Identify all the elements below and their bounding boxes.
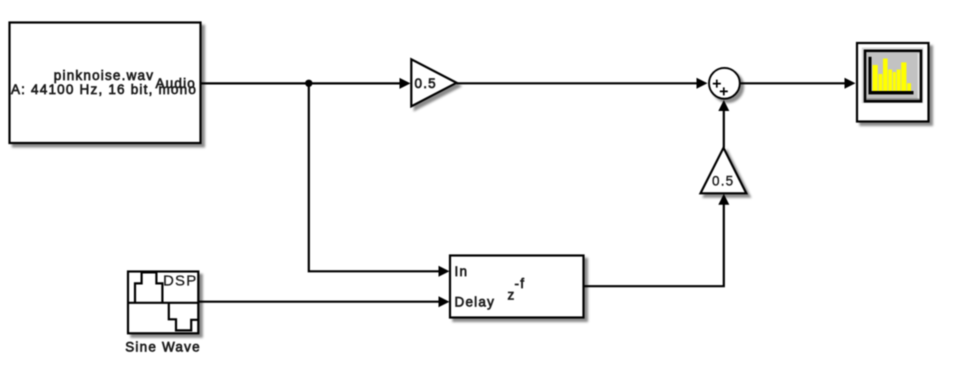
wire sine wave to delay [198, 296, 449, 307]
source block From Multimedia File (pinknoise.wav) [10, 23, 201, 144]
wire delay to gain G2 [584, 194, 730, 286]
gain G1 0.5 [411, 59, 456, 106]
wire branch to delay In [309, 83, 450, 276]
wire source to gain G1 [201, 78, 411, 89]
svg-text:Audio: Audio [155, 76, 196, 91]
svg-text:-f: -f [515, 276, 526, 291]
svg-text:DSP: DSP [163, 273, 197, 290]
svg-text:Delay: Delay [455, 294, 496, 309]
sine wave block DSP [128, 272, 198, 334]
svg-text:0.5: 0.5 [415, 76, 437, 91]
sum block [709, 68, 740, 99]
gain G2 0.5 [701, 148, 747, 194]
svg-text:0.5: 0.5 [712, 174, 734, 189]
svg-text:Sine Wave: Sine Wave [125, 340, 201, 355]
wire sum to scope [740, 78, 855, 89]
svg-text:In: In [455, 264, 469, 279]
delay block Variable Fractional Delay [450, 256, 584, 318]
node branch junction [305, 80, 312, 87]
wire gain G2 to sum [718, 100, 729, 148]
svg-text:pinknoise.wav: pinknoise.wav [54, 68, 154, 83]
scope block Spectrum Analyzer [857, 43, 929, 122]
wire gain G1 to sum [457, 78, 708, 89]
